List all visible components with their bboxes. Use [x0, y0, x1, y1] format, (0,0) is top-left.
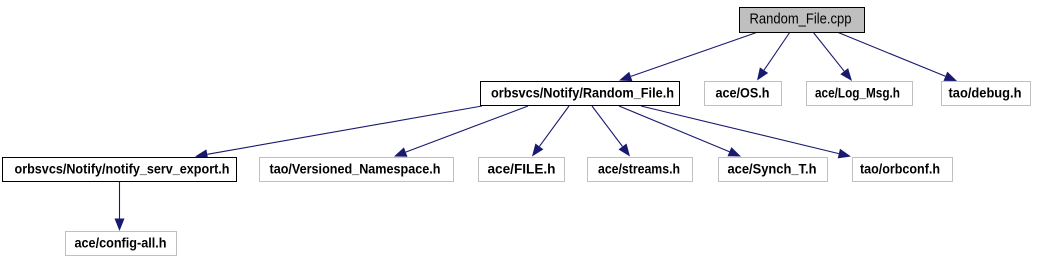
svg-text:ace/Log_Msg.h: ace/Log_Msg.h: [815, 85, 900, 101]
svg-text:ace/config-all.h: ace/config-all.h: [75, 235, 167, 251]
svg-text:ace/FILE.h: ace/FILE.h: [488, 161, 556, 177]
svg-text:ace/streams.h: ace/streams.h: [598, 161, 680, 177]
svg-text:ace/Synch_T.h: ace/Synch_T.h: [728, 161, 817, 177]
svg-text:tao/orbconf.h: tao/orbconf.h: [860, 161, 940, 177]
svg-text:ace/OS.h: ace/OS.h: [716, 85, 770, 101]
svg-text:tao/Versioned_Namespace.h: tao/Versioned_Namespace.h: [270, 161, 441, 177]
svg-text:tao/debug.h: tao/debug.h: [949, 85, 1022, 101]
svg-text:Random_File.cpp: Random_File.cpp: [750, 12, 852, 28]
svg-text:orbsvcs/Notify/Random_File.h: orbsvcs/Notify/Random_File.h: [491, 85, 674, 101]
svg-text:orbsvcs/Notify/notify_serv_exp: orbsvcs/Notify/notify_serv_export.h: [15, 161, 230, 177]
